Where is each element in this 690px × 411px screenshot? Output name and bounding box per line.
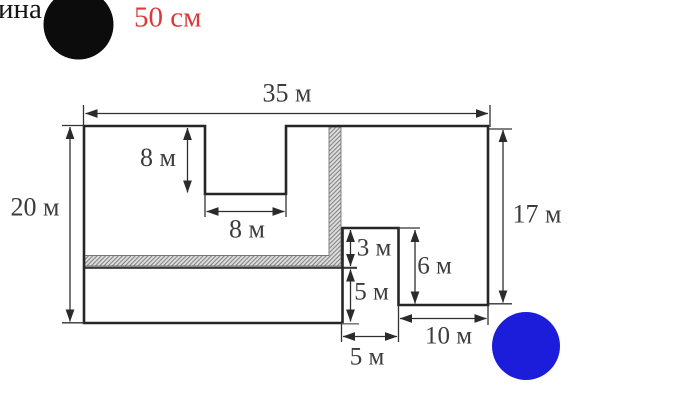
svg-text:20 м: 20 м — [11, 193, 60, 222]
black circle — [44, 0, 114, 60]
dimension arrow 8 м horizontal (notch width) — [207, 211, 285, 213]
extension line below right edge (for 10 м) — [487, 306, 489, 325]
path bottom border line with tick to 3м/5м boundary — [84, 267, 357, 269]
reference tick below small-notch left edge (5 м bottom reference) — [342, 323, 359, 325]
svg-text:50 см: 50 см — [134, 2, 201, 34]
extension line below notch right side (for 8 м) — [285, 194, 287, 217]
blue circle — [492, 312, 560, 380]
extension line below notch left side (for 8 м) — [204, 194, 206, 217]
svg-text:6 м: 6 м — [417, 253, 452, 280]
dimension arrow 5 м vertical — [350, 270, 352, 322]
svg-text:5 м: 5 м — [350, 344, 385, 371]
svg-text:8 м: 8 м — [140, 143, 176, 172]
dimension arrow 3 м — [350, 230, 352, 266]
hatched garden path (L-shaped strip) — [84, 127, 341, 266]
dimension arrow 20 м — [69, 127, 71, 322]
extension line right of small-notch top edge (for 6 м) — [398, 227, 420, 229]
svg-text:5 м: 5 м — [354, 279, 389, 306]
dimension arrow 17 м — [502, 130, 504, 303]
svg-text:ина: ина — [0, 0, 42, 25]
extension line top-right above corner (for 35 м) — [489, 105, 491, 127]
dimension arrow 8 м vertical (notch depth) — [187, 128, 189, 193]
extension line below small-notch left edge (for 5 м) — [341, 323, 343, 342]
extension line left of top-left corner (for 20 м) — [62, 125, 84, 127]
svg-text:8 м: 8 м — [229, 215, 265, 244]
extension line below small-notch right edge (for 10 м and 5 м) — [398, 305, 400, 342]
plot outline polygon — [84, 126, 488, 323]
dimension arrow 10 м — [400, 318, 487, 320]
svg-text:10 м: 10 м — [425, 323, 472, 350]
dimension arrow 5 м horizontal — [343, 336, 397, 338]
dimension arrow 35 м — [86, 113, 489, 115]
extension line left of bottom-left corner (for 20 м) — [62, 322, 84, 324]
extension line right of bottom-right corner (for 17 м) — [489, 303, 512, 305]
extension line top-left above corner (for 35 м) — [83, 105, 85, 125]
extension line right of top-right corner (for 17 м) — [489, 128, 512, 130]
svg-text:35 м: 35 м — [263, 79, 312, 108]
dimension arrow 6 м — [414, 230, 416, 304]
svg-text:17 м: 17 м — [513, 200, 562, 229]
svg-text:3 м: 3 м — [357, 235, 392, 262]
